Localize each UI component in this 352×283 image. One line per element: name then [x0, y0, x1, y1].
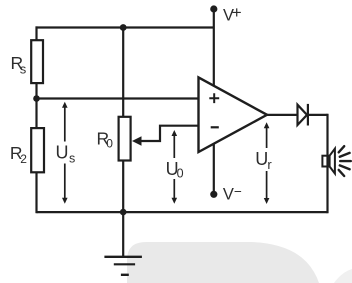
wire V- vertical [213, 143, 215, 194]
wire right vertical [326, 114, 328, 213]
voltage arrow Ur [264, 122, 270, 204]
label R0 [97, 129, 114, 151]
diode [298, 104, 308, 126]
node A junction [33, 95, 40, 102]
background gray blob large [127, 242, 319, 283]
wire wiper to inverting input [136, 126, 199, 141]
resistor Rs [31, 40, 43, 83]
label U0 [165, 158, 188, 181]
svg-text:V: V [223, 186, 234, 204]
svg-text:0: 0 [106, 137, 113, 151]
wire node A to R2 [35, 98, 37, 128]
svg-text:U: U [255, 149, 268, 169]
svg-text:2: 2 [20, 152, 27, 166]
V- terminal dot [210, 191, 217, 198]
label Rs [11, 53, 27, 77]
voltage arrow Us [62, 102, 68, 204]
junction bottom rail [120, 209, 127, 216]
label Ur [255, 148, 275, 172]
wire bottom rail [37, 211, 328, 213]
op-amp minus input marking [211, 126, 219, 128]
V+ terminal dot [210, 5, 217, 12]
svg-text:U: U [56, 142, 69, 162]
loudspeaker sound rays [339, 146, 351, 176]
wire op-amp output [267, 114, 298, 116]
resistor R2 [31, 128, 44, 172]
wire top rail [36, 26, 214, 28]
wire middle vertical upper [122, 26, 124, 116]
wire diode to corner [309, 114, 328, 116]
junction top rail [120, 24, 127, 31]
wire left branch top [35, 26, 37, 40]
wire V+ vertical [213, 9, 215, 86]
svg-text:r: r [267, 157, 272, 172]
wire R2 bottom to bottom rail [35, 172, 37, 213]
label Us [56, 142, 77, 166]
wiper arrowhead on R0 [132, 136, 142, 145]
svg-text:s: s [69, 151, 75, 165]
label V- [223, 184, 242, 204]
voltage arrow U0 [172, 130, 178, 204]
svg-text:−: − [234, 184, 242, 199]
op-amp plus input marking [209, 93, 219, 103]
wire noninverting input (node A to op-amp +) [37, 97, 199, 99]
loudspeaker [322, 149, 335, 174]
ground [104, 212, 141, 275]
label R2 [10, 143, 27, 166]
wire R0 bottom to bottom rail [122, 161, 124, 214]
svg-text:s: s [20, 62, 27, 77]
label V+ [223, 3, 242, 25]
background gray blob corner [334, 269, 352, 283]
potentiometer R0 [119, 117, 131, 161]
wire Rs bottom to node A [35, 83, 37, 99]
svg-text:0: 0 [177, 167, 184, 181]
svg-text:+: + [232, 3, 242, 22]
op-amp [199, 77, 268, 152]
